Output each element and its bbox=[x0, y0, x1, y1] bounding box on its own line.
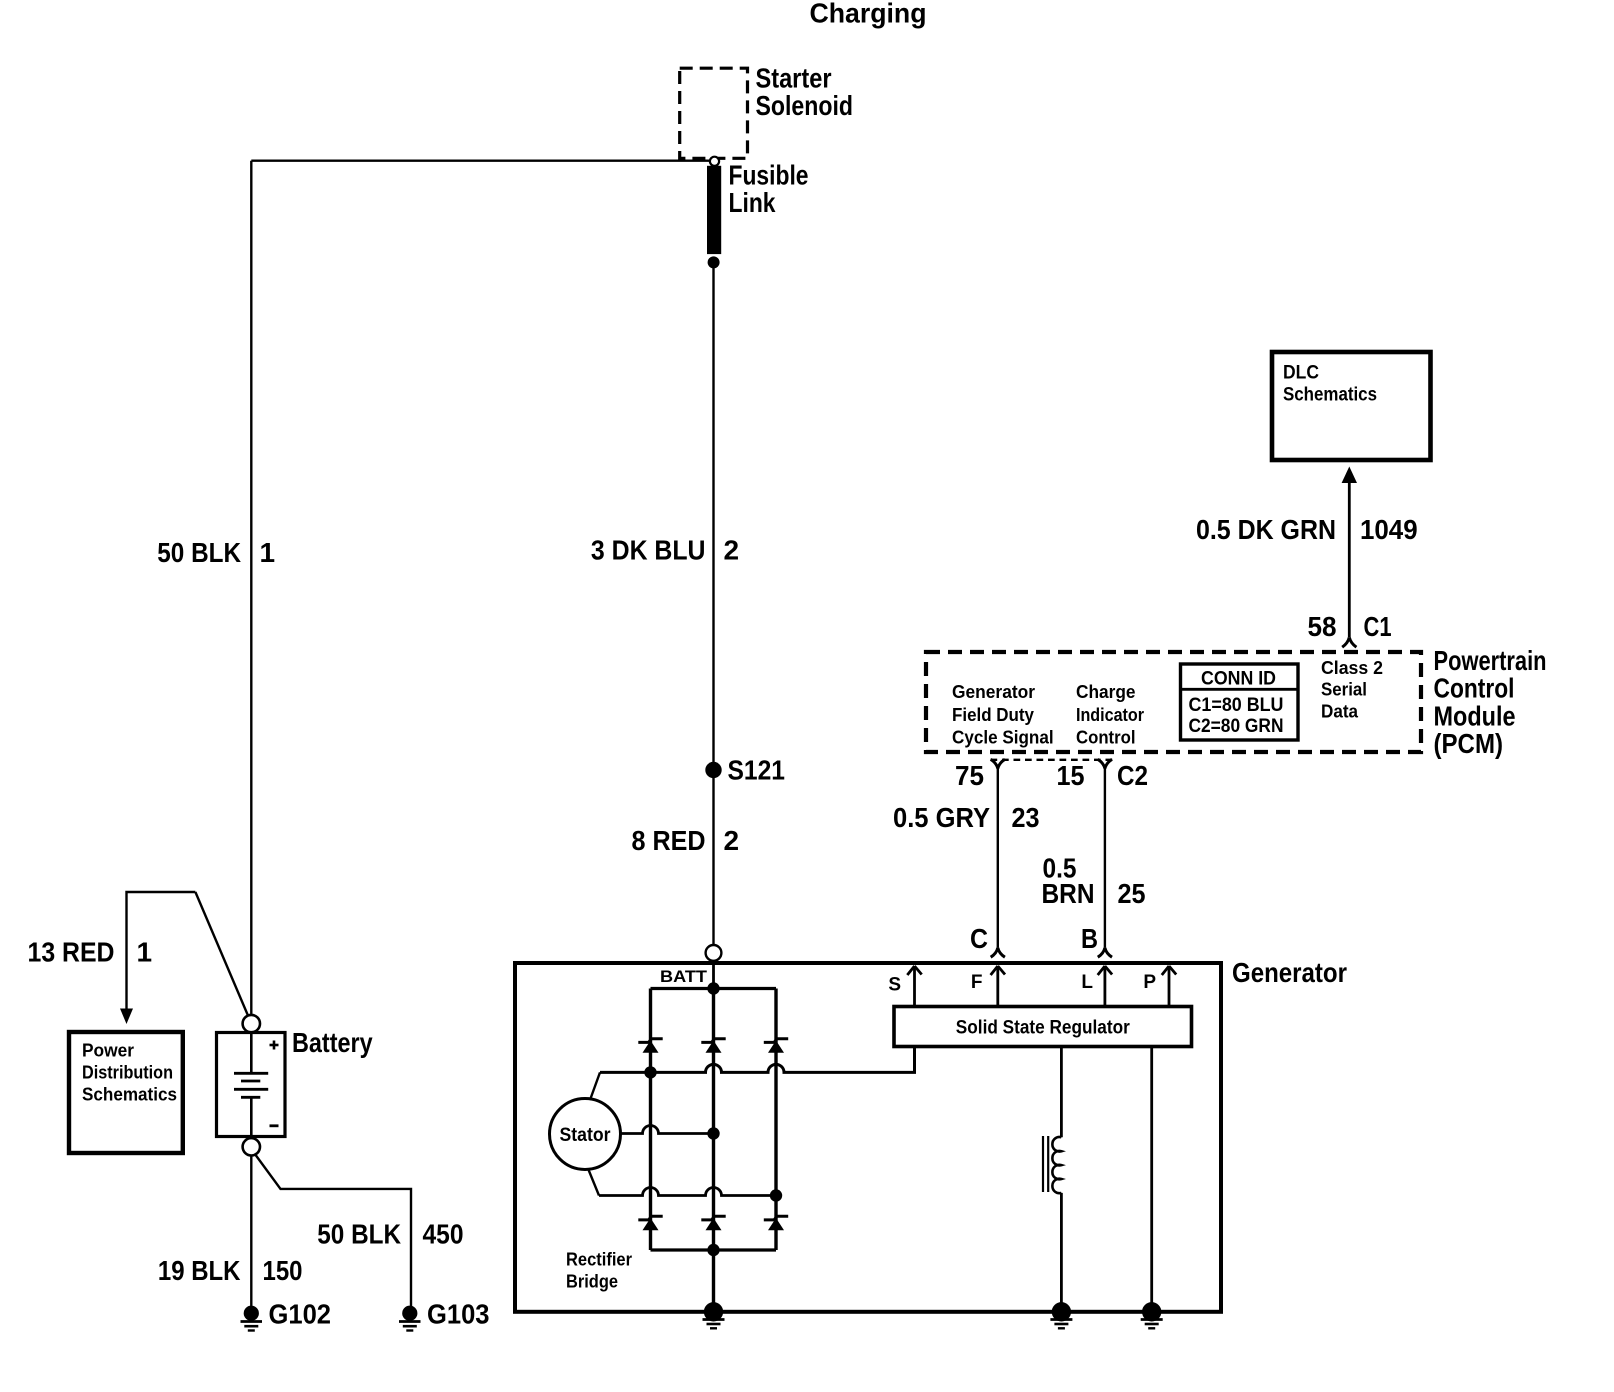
svg-text:Solenoid: Solenoid bbox=[756, 90, 854, 121]
junction dot BATT rail bbox=[707, 982, 719, 994]
svg-text:C2=80 GRN: C2=80 GRN bbox=[1189, 716, 1284, 737]
wire 19 BLK to G102 bbox=[250, 1156, 252, 1307]
svg-text:Control: Control bbox=[1434, 673, 1515, 704]
svg-text:S121: S121 bbox=[728, 755, 786, 786]
wire 0.5 BRN 25 bbox=[1104, 769, 1106, 948]
diode D2 upper middle bbox=[701, 1039, 725, 1053]
svg-text:Stator: Stator bbox=[560, 1125, 612, 1146]
wire 50 BLK 450 run to G103 bbox=[255, 1154, 412, 1307]
svg-text:2: 2 bbox=[724, 825, 740, 856]
ground dot regulator bbox=[1142, 1302, 1161, 1321]
diode D3 upper right bbox=[764, 1039, 788, 1053]
rectifier middle branch bbox=[712, 989, 715, 1312]
svg-text:Rectifier: Rectifier bbox=[566, 1250, 632, 1270]
battery minus bbox=[270, 1124, 279, 1127]
svg-text:G102: G102 bbox=[269, 1299, 332, 1330]
svg-text:Bridge: Bridge bbox=[566, 1272, 618, 1292]
svg-text:P: P bbox=[1143, 972, 1156, 993]
svg-text:Battery: Battery bbox=[292, 1027, 373, 1058]
ground symbol field coil bbox=[1050, 1320, 1072, 1329]
ground dot field coil bbox=[1052, 1302, 1071, 1321]
node circle at fusible link top bbox=[710, 157, 719, 166]
stator circle bbox=[550, 1099, 621, 1170]
battery box bbox=[217, 1033, 286, 1137]
svg-text:Indicator: Indicator bbox=[1076, 705, 1144, 725]
svg-text:B: B bbox=[1081, 923, 1098, 954]
arrowhead into power distribution box bbox=[120, 1009, 133, 1025]
svg-text:0.5 DK GRN: 0.5 DK GRN bbox=[1196, 514, 1336, 545]
stator lead top diagonal bbox=[590, 1072, 600, 1100]
svg-text:Generator: Generator bbox=[952, 682, 1035, 702]
phase B wire with hop bbox=[621, 1126, 714, 1134]
wire diagonal to battery positive bbox=[195, 892, 248, 1017]
stator lead bottom diagonal bbox=[588, 1169, 599, 1196]
svg-text:F: F bbox=[971, 972, 983, 993]
svg-text:Serial: Serial bbox=[1321, 680, 1367, 700]
dashed connector edge between pins bbox=[991, 759, 1113, 761]
svg-text:50 BLK: 50 BLK bbox=[157, 537, 241, 568]
wire 3 DK BLU vertical bbox=[712, 262, 714, 762]
phase C wire with hops bbox=[599, 1188, 776, 1196]
svg-text:C2: C2 bbox=[1117, 760, 1148, 791]
ground symbol regulator bbox=[1141, 1320, 1163, 1329]
ground dot rectifier at generator case bbox=[704, 1302, 723, 1321]
svg-text:C1=80 BLU: C1=80 BLU bbox=[1189, 695, 1284, 716]
rectifier top rail bbox=[651, 987, 777, 990]
svg-text:L: L bbox=[1081, 972, 1093, 993]
field coil lead from regulator bbox=[1060, 1047, 1063, 1138]
svg-text:C1: C1 bbox=[1364, 611, 1392, 642]
wire horizontal from 50 BLK to fusible link bbox=[251, 159, 710, 161]
svg-text:Powertrain: Powertrain bbox=[1434, 645, 1547, 676]
svg-text:2: 2 bbox=[724, 535, 740, 566]
svg-text:Class 2: Class 2 bbox=[1321, 658, 1383, 678]
arrow L bbox=[1098, 966, 1112, 1007]
svg-text:C: C bbox=[970, 923, 988, 954]
svg-text:Distribution: Distribution bbox=[82, 1063, 173, 1083]
svg-text:19 BLK: 19 BLK bbox=[158, 1255, 241, 1286]
field coil inductor bbox=[1052, 1137, 1061, 1193]
solid state regulator box bbox=[894, 1007, 1192, 1047]
rectifier left branch bbox=[649, 989, 652, 1251]
ground symbol rectifier bbox=[703, 1320, 725, 1329]
svg-text:Charge: Charge bbox=[1076, 682, 1136, 702]
regulator ground lead bbox=[1150, 1047, 1153, 1312]
wire vertical 50 BLK bbox=[250, 161, 252, 1015]
svg-text:1: 1 bbox=[137, 937, 153, 968]
diode D6 lower right bbox=[764, 1216, 788, 1230]
pin 75 fork bbox=[991, 759, 1005, 768]
svg-text:DLC: DLC bbox=[1283, 363, 1319, 384]
svg-text:Charging: Charging bbox=[810, 0, 927, 29]
wire 0.5 DK GRN with arrow to DLC bbox=[1348, 482, 1351, 637]
junction dot bottom rail bbox=[707, 1244, 719, 1256]
svg-text:Schematics: Schematics bbox=[1283, 385, 1377, 406]
svg-text:Generator: Generator bbox=[1232, 957, 1347, 988]
junction dot phase B on middle branch bbox=[707, 1127, 719, 1139]
svg-text:25: 25 bbox=[1118, 878, 1146, 909]
svg-text:Data: Data bbox=[1321, 702, 1359, 722]
svg-text:G103: G103 bbox=[427, 1299, 490, 1330]
PCM dashed box bbox=[926, 652, 1421, 752]
rectifier bottom rail bbox=[651, 1248, 777, 1251]
wire 8 RED vertical bbox=[712, 778, 714, 945]
fusible link bbox=[707, 166, 721, 254]
svg-text:Control: Control bbox=[1076, 728, 1136, 748]
arrow P bbox=[1162, 966, 1176, 1007]
svg-text:Field Duty: Field Duty bbox=[952, 705, 1034, 725]
CONN ID table bbox=[1181, 664, 1299, 740]
svg-text:(PCM): (PCM) bbox=[1434, 728, 1504, 759]
svg-text:0.5 GRY: 0.5 GRY bbox=[893, 802, 990, 833]
phase A wire with hops to regulator S input bbox=[600, 1047, 915, 1073]
battery terminal circle top bbox=[243, 1015, 260, 1032]
starter solenoid dashed box bbox=[680, 68, 748, 158]
svg-text:Schematics: Schematics bbox=[82, 1085, 177, 1105]
generator box bbox=[515, 963, 1221, 1312]
wire 0.5 GRY 23 bbox=[997, 769, 999, 948]
svg-text:Starter: Starter bbox=[756, 62, 832, 93]
rectifier right branch bbox=[774, 989, 777, 1251]
svg-text:1: 1 bbox=[260, 537, 276, 568]
wire BATT stub into generator bbox=[712, 961, 715, 989]
svg-text:Power: Power bbox=[82, 1041, 134, 1061]
field coil core bars bbox=[1042, 1136, 1044, 1192]
DLC schematics box bbox=[1272, 352, 1431, 460]
svg-text:8 RED: 8 RED bbox=[632, 825, 706, 856]
arrowhead to DLC bbox=[1342, 467, 1357, 484]
svg-text:3 DK BLU: 3 DK BLU bbox=[591, 535, 706, 566]
power distribution schematics box bbox=[69, 1032, 183, 1153]
svg-text:1049: 1049 bbox=[1360, 514, 1418, 545]
connector fork B at generator bbox=[1098, 948, 1112, 957]
svg-text:Cycle Signal: Cycle Signal bbox=[952, 728, 1054, 748]
battery plus bbox=[270, 1044, 279, 1047]
svg-text:Fusible: Fusible bbox=[729, 160, 809, 191]
svg-text:CONN ID: CONN ID bbox=[1201, 669, 1276, 690]
svg-text:Link: Link bbox=[729, 187, 776, 218]
junction dot phase A on left branch bbox=[644, 1066, 656, 1078]
wire 13 RED arrow run bbox=[127, 892, 196, 1010]
ground G102 bbox=[241, 1306, 263, 1331]
svg-text:75: 75 bbox=[955, 760, 984, 791]
svg-text:BRN: BRN bbox=[1042, 878, 1095, 909]
pin 15 fork bbox=[1098, 759, 1112, 768]
junction dot phase C on right branch bbox=[770, 1189, 782, 1201]
node dot below fusible link bbox=[708, 256, 720, 268]
svg-text:23: 23 bbox=[1012, 802, 1040, 833]
splice S121 bbox=[705, 762, 721, 778]
terminal circle BATT bbox=[706, 945, 722, 961]
battery terminal circle bottom bbox=[243, 1138, 260, 1155]
arrow F bbox=[991, 966, 1005, 1007]
svg-text:Module: Module bbox=[1434, 700, 1516, 731]
field coil lead to ground bbox=[1060, 1193, 1063, 1312]
battery cell symbol bbox=[250, 1033, 253, 1073]
svg-text:Solid State Regulator: Solid State Regulator bbox=[956, 1018, 1131, 1039]
connector fork C at generator bbox=[991, 948, 1005, 957]
diode D5 lower middle bbox=[701, 1216, 725, 1230]
svg-text:BATT: BATT bbox=[660, 967, 708, 986]
ground G103 bbox=[399, 1306, 421, 1331]
svg-text:450: 450 bbox=[423, 1219, 464, 1250]
svg-text:S: S bbox=[888, 975, 901, 996]
diode D1 upper left bbox=[638, 1039, 662, 1053]
arrow S bbox=[907, 966, 921, 1007]
svg-text:58: 58 bbox=[1308, 611, 1337, 642]
svg-text:15: 15 bbox=[1057, 760, 1085, 791]
svg-text:50 BLK: 50 BLK bbox=[317, 1219, 401, 1250]
svg-text:13 RED: 13 RED bbox=[28, 937, 115, 968]
svg-text:150: 150 bbox=[263, 1255, 303, 1286]
diode D4 lower left bbox=[638, 1216, 662, 1230]
connector fork C1 bbox=[1342, 637, 1356, 647]
